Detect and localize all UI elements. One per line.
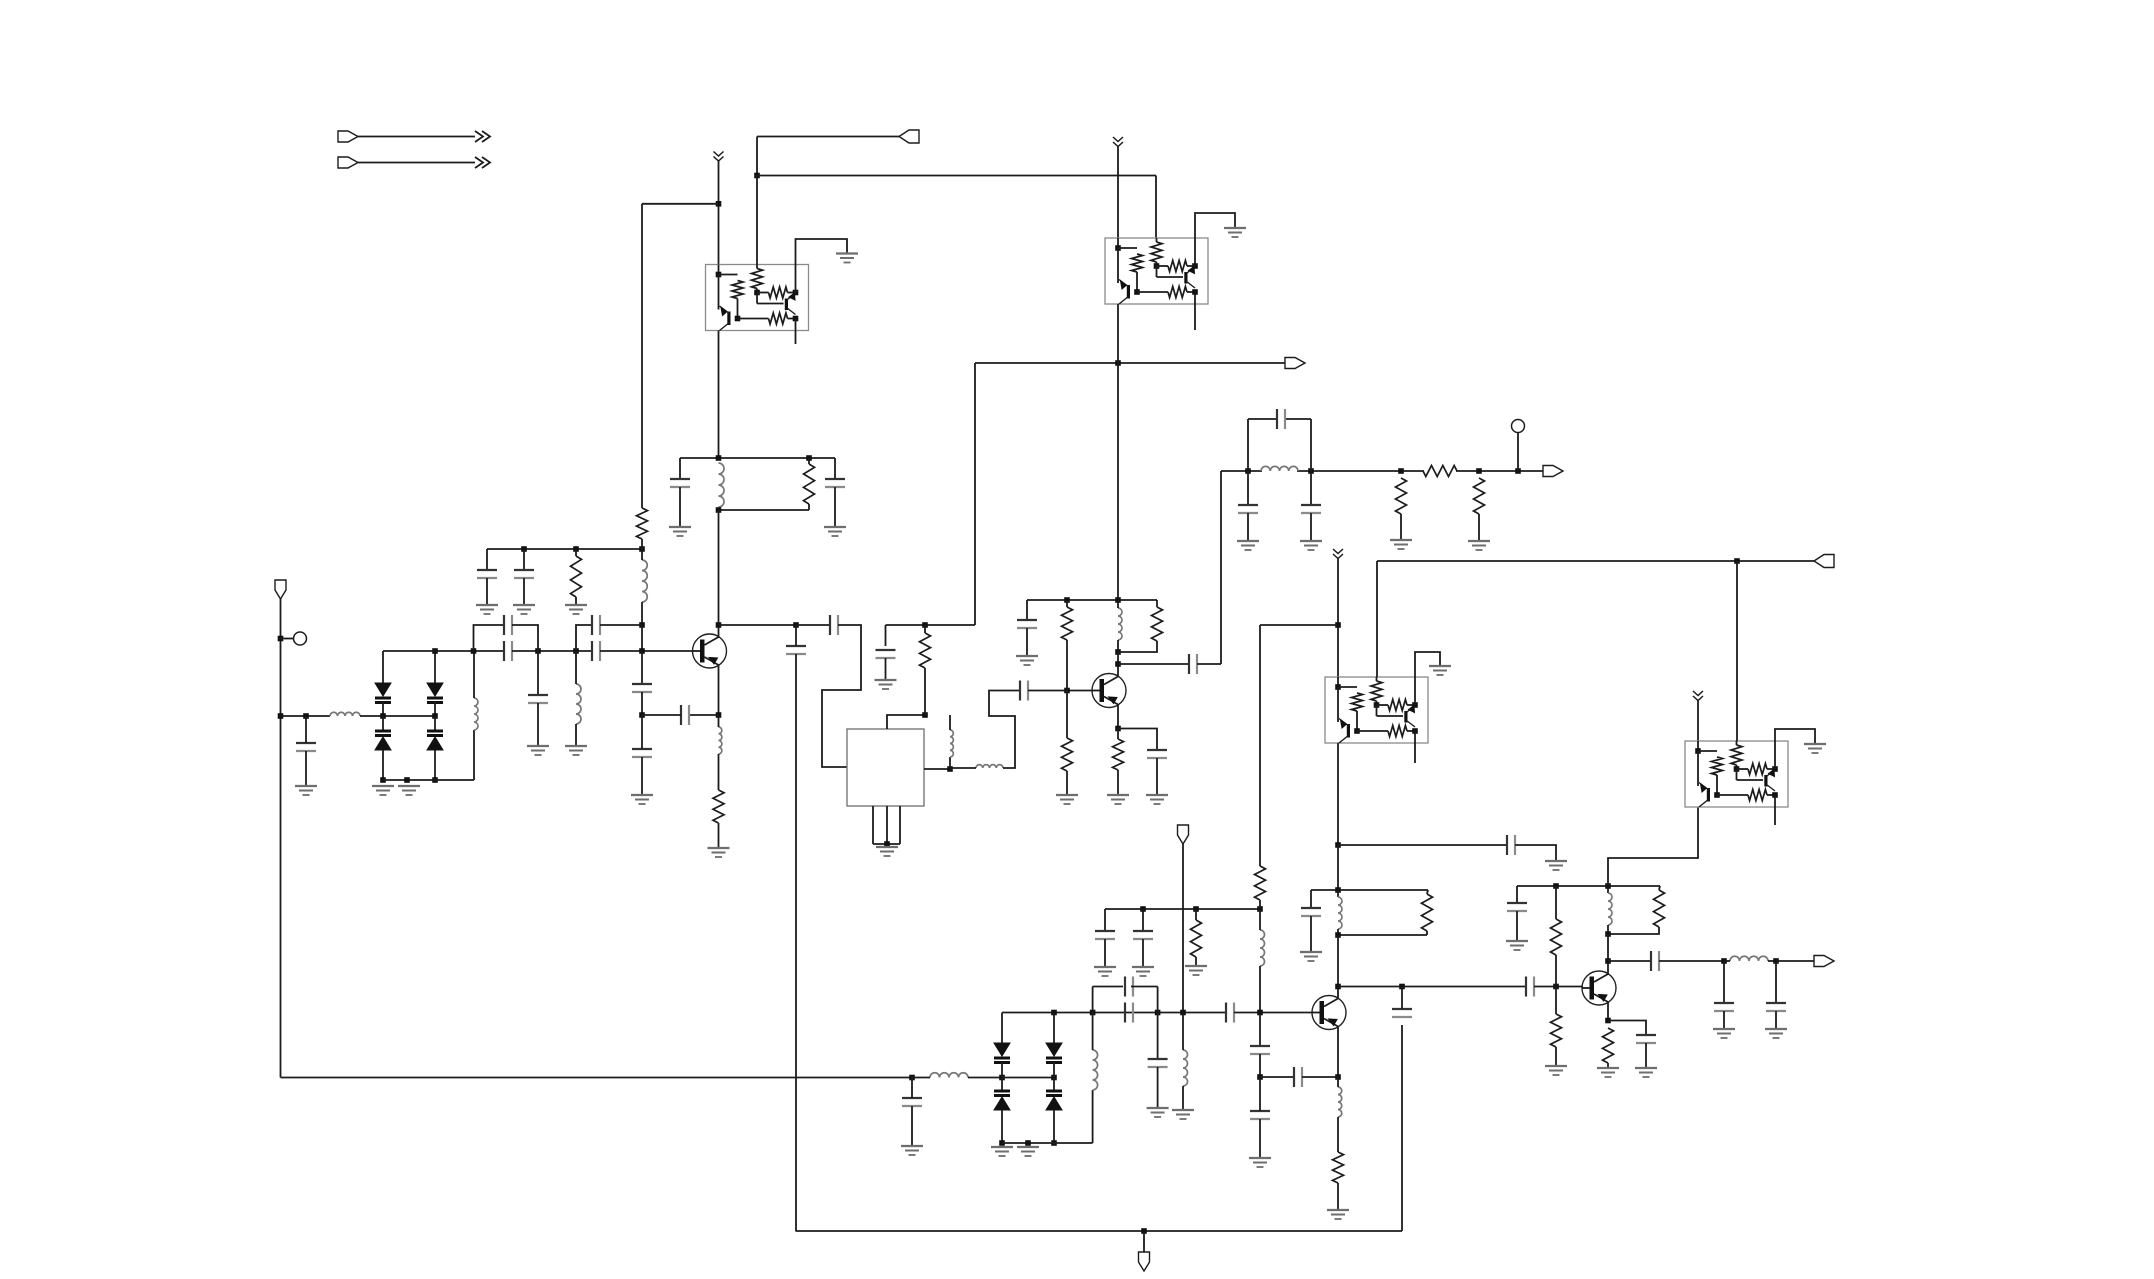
wire U1 center pin up bbox=[756, 176, 758, 265]
capacitor C-q2in bbox=[1020, 681, 1028, 701]
node junction (1402,986) bbox=[1399, 984, 1405, 990]
wire bbox=[473, 651, 475, 698]
node junction (1518,471) bbox=[1515, 468, 1521, 474]
wire bbox=[382, 702, 384, 716]
wire x642 long vertical bbox=[641, 204, 643, 508]
wire bbox=[968, 1077, 1002, 1079]
inductor L-tankB bbox=[1608, 893, 1612, 925]
wire q3 base line b bbox=[1234, 1012, 1312, 1014]
capacitor C-par-low bbox=[1125, 1003, 1133, 1023]
wire lead bbox=[1104, 939, 1106, 967]
ground tank1-left bbox=[669, 527, 691, 536]
node junction (1260,1012) bbox=[1257, 1010, 1263, 1016]
wire lead bbox=[1400, 514, 1402, 540]
wire q4 emitter bbox=[1607, 1002, 1609, 1021]
inductor L-shunt576 bbox=[576, 684, 581, 724]
wire y625 rail bbox=[886, 624, 976, 626]
capacitor C-saw-in bbox=[830, 615, 838, 635]
wire bbox=[1182, 1086, 1184, 1110]
capacitor C-q3fb bbox=[1294, 1067, 1302, 1087]
node junction (1248,471) bbox=[1245, 468, 1251, 474]
resistor R-q2e bbox=[1113, 739, 1124, 770]
transistor Q1 bbox=[693, 634, 727, 668]
wire bbox=[1555, 955, 1557, 987]
wire y651 b bbox=[512, 650, 592, 652]
wire lead bbox=[486, 578, 488, 605]
node junction (796,625) bbox=[793, 622, 799, 628]
wire bbox=[1607, 1063, 1609, 1068]
ground f1 bbox=[1237, 541, 1259, 550]
connector flag IF-OUT bbox=[1543, 466, 1563, 477]
ground U2 bbox=[1224, 228, 1246, 237]
wire lead bbox=[305, 716, 307, 743]
wire filter rail c bbox=[1456, 470, 1543, 472]
wire legend1 bbox=[358, 136, 475, 138]
wire saw zigzag bbox=[822, 625, 861, 767]
capacitor C-f1 bbox=[1238, 505, 1258, 513]
dual-transistor package U1 bbox=[706, 265, 809, 331]
wire bbox=[1197, 663, 1221, 665]
wire lead bbox=[1310, 890, 1312, 908]
wire x1402 riser bbox=[1401, 1025, 1403, 1231]
wire bbox=[1002, 1077, 1054, 1079]
wire lead bbox=[1259, 1077, 1261, 1111]
ground varC bbox=[991, 1147, 1013, 1156]
wire q3c to q4b bbox=[1338, 986, 1526, 988]
wire collector into Q4 bbox=[1607, 961, 1609, 975]
node junction (1002,1077) bbox=[999, 1075, 1005, 1081]
resistor R-q2b2 bbox=[1062, 738, 1073, 771]
node junction (407,780) bbox=[404, 777, 410, 783]
node junction (1118,652) bbox=[1115, 649, 1121, 655]
capacitor C-par-up bbox=[1125, 977, 1133, 997]
ground q2e-c bbox=[1146, 795, 1168, 804]
wire bbox=[1776, 960, 1814, 962]
wire bias rail y549 bbox=[487, 548, 642, 550]
node junction (718,625) bbox=[716, 622, 722, 628]
capacitor C-tanktop bbox=[1277, 409, 1285, 429]
wire lead bbox=[537, 703, 539, 746]
node junction (1337,890) bbox=[1335, 887, 1341, 893]
ground tank1-right bbox=[824, 527, 846, 536]
wire lead bbox=[1066, 600, 1068, 607]
wire legend2 bbox=[358, 162, 475, 164]
varactor diode D4 (up) bbox=[427, 731, 443, 750]
ground bias2 bbox=[513, 605, 535, 614]
wire bbox=[1401, 987, 1403, 1010]
capacitor C-q3in bbox=[1226, 1003, 1234, 1023]
wire bbox=[1066, 640, 1068, 691]
inductor L-saw side bbox=[950, 730, 953, 757]
ground tankA bbox=[1300, 952, 1322, 961]
node junction (280,716) bbox=[278, 713, 284, 719]
node junction (1776,961) bbox=[1773, 958, 1779, 964]
resistor R-e Q1 bbox=[713, 790, 724, 823]
wire U3 right stub bbox=[1414, 743, 1416, 763]
wire flag stem bbox=[1143, 1231, 1145, 1252]
inductor L-input bbox=[330, 712, 360, 716]
wire q2 rail y600 bbox=[1027, 599, 1157, 601]
wire U3 pin to tank bbox=[1337, 845, 1339, 890]
node junction (1143,909) bbox=[1140, 906, 1146, 912]
wire bbox=[1182, 1013, 1184, 1051]
wire bbox=[718, 715, 720, 727]
wire bbox=[1001, 1110, 1003, 1143]
capacitor C-q2e bbox=[1147, 750, 1167, 758]
wire upper branch2 bbox=[576, 625, 592, 651]
capacitor C-642a bbox=[632, 684, 652, 692]
varactor diode D8 (up) bbox=[1046, 1091, 1062, 1110]
inductor L-1183 bbox=[1183, 1050, 1188, 1086]
wire corner x757 bbox=[756, 137, 758, 176]
capacitor C-tankA bbox=[1301, 908, 1321, 916]
node junction (1608,886) bbox=[1605, 883, 1611, 889]
chevron down D bbox=[1693, 691, 1703, 701]
capacitor C-q4out bbox=[1651, 951, 1659, 971]
test point circle 2 bbox=[1512, 420, 1525, 433]
wire to Q2 base bbox=[1028, 690, 1092, 692]
wire U4 right stub bbox=[1774, 807, 1776, 825]
wire tank riser l bbox=[1247, 419, 1249, 471]
wire bbox=[1259, 966, 1261, 1013]
capacitor C-q2out bbox=[1189, 654, 1197, 674]
capacitor C-1402 bbox=[1392, 1009, 1412, 1017]
wire bbox=[1156, 758, 1158, 795]
wire bbox=[434, 750, 436, 780]
transistor Q3 bbox=[1312, 996, 1346, 1030]
resistor R-q2b1 bbox=[1062, 607, 1073, 640]
ground q2e bbox=[1107, 795, 1129, 804]
resistor R-tankB bbox=[1654, 890, 1665, 927]
ground shunt538 bbox=[527, 746, 549, 755]
wire lead bbox=[808, 458, 810, 464]
connector flag VCC2 bbox=[1814, 555, 1834, 568]
connector flag RF-IN bbox=[275, 580, 286, 599]
node junction (912,1077) bbox=[909, 1075, 915, 1081]
inductor L-q2c bbox=[1118, 608, 1122, 640]
wire bbox=[1117, 640, 1119, 652]
resistor R-909 bbox=[1191, 920, 1202, 957]
resistor R-q4b lower bbox=[1551, 1014, 1562, 1047]
wire U4 right pin bend bbox=[1775, 729, 1815, 744]
capacitor C-q2rail bbox=[1017, 620, 1037, 628]
wire lead bbox=[1516, 911, 1518, 941]
node junction (576,549) bbox=[573, 546, 579, 552]
node junction (1067,600) bbox=[1064, 597, 1070, 603]
wire cap-gnd lead r bbox=[834, 487, 836, 527]
node junction (1002,1143) bbox=[999, 1140, 1005, 1146]
wire bbox=[718, 823, 720, 848]
capacitor C-845 bbox=[1507, 835, 1515, 855]
capacitor C-909a bbox=[1095, 931, 1115, 939]
ground U1 bbox=[836, 254, 858, 263]
wire collector tap bbox=[719, 624, 797, 626]
node junction (538,651) bbox=[535, 648, 541, 654]
wire lead bbox=[911, 1106, 913, 1146]
wire input rail y716 bbox=[281, 715, 331, 717]
wire lead bbox=[305, 751, 307, 786]
capacitor C-1260a bbox=[1250, 1046, 1270, 1054]
wire x1221 riser bbox=[1220, 471, 1222, 664]
wire lead bbox=[641, 625, 643, 651]
wire bbox=[1555, 987, 1557, 1015]
inductor L-tank1 bbox=[719, 463, 725, 507]
net chevron down B bbox=[1113, 137, 1123, 147]
legend connector flag IN1 bbox=[338, 131, 358, 142]
wire lead bbox=[641, 602, 643, 625]
wire x975 riser bbox=[974, 363, 976, 625]
wire lead bbox=[1310, 916, 1312, 952]
wire saw out route bbox=[989, 691, 1020, 769]
wire lead bbox=[1516, 886, 1518, 903]
node junction (306,716) bbox=[303, 713, 309, 719]
node junction (1337,935) bbox=[1335, 932, 1341, 938]
ground q4e bbox=[1597, 1068, 1619, 1077]
wire bbox=[1337, 1077, 1339, 1087]
wire bbox=[1117, 600, 1119, 608]
wire bbox=[1118, 641, 1157, 652]
wire lead bbox=[1247, 513, 1249, 541]
node junction (473,651) bbox=[471, 648, 477, 654]
node junction (925,625) bbox=[922, 622, 928, 628]
node junction (1260,909) bbox=[1257, 906, 1263, 912]
wire cap lead bbox=[486, 549, 488, 570]
wire lead bbox=[523, 578, 525, 605]
wire y204 bbox=[642, 203, 719, 205]
wire to test point bbox=[281, 638, 294, 640]
node junction (435,651) bbox=[432, 648, 438, 654]
connector flag OSC-out bbox=[1285, 358, 1305, 369]
node junction (809,458) bbox=[806, 455, 812, 461]
connector flag AGC bbox=[1178, 825, 1189, 844]
legend double-chevron 2 bbox=[475, 157, 490, 168]
net chevron down C bbox=[1333, 549, 1343, 559]
resistor R-q4b upper bbox=[1551, 919, 1562, 955]
node junction (1608,1020) bbox=[1605, 1018, 1611, 1024]
wire q4 out a bbox=[1608, 960, 1651, 962]
wire tank top r bbox=[1285, 418, 1311, 420]
connector flag RF-OUT bbox=[1814, 956, 1834, 967]
wire chevron1 stem bbox=[718, 161, 720, 265]
wire lead bbox=[1259, 1119, 1261, 1158]
node junction (1118,363) bbox=[1115, 360, 1121, 366]
wire bbox=[1259, 909, 1261, 930]
wire bbox=[1156, 600, 1158, 607]
wire lead bbox=[641, 692, 643, 715]
ground f3 bbox=[1390, 540, 1412, 549]
wire chevron2 stem bbox=[1117, 147, 1119, 239]
wire tank1 top rail bbox=[680, 457, 835, 459]
wire bbox=[1092, 1013, 1094, 1051]
wire lead bbox=[1310, 471, 1312, 505]
resistor R-f3 bbox=[1474, 478, 1485, 514]
wire bbox=[1001, 1062, 1003, 1078]
wire varB top lead bbox=[434, 651, 436, 683]
ground f4 bbox=[1468, 541, 1490, 550]
connector flag VCC-top bbox=[899, 130, 919, 143]
wire upper branch1 b bbox=[512, 625, 538, 651]
wire e-cap link bbox=[1260, 1076, 1294, 1078]
wire filter rail b bbox=[1297, 470, 1424, 472]
wire emitter cap link bbox=[689, 714, 719, 716]
ground 845 bbox=[1545, 861, 1567, 870]
wire lead bbox=[575, 597, 577, 605]
varactor diode D6 (up) bbox=[994, 1091, 1010, 1110]
wire lead bbox=[795, 625, 797, 646]
wire bbox=[912, 1077, 930, 1079]
ground out1 bbox=[1713, 1029, 1735, 1038]
wire bbox=[1118, 729, 1157, 751]
capacitor C-bias1 bbox=[477, 570, 497, 578]
net chevron down A bbox=[714, 152, 724, 162]
wire U1 right stub bbox=[795, 331, 797, 345]
wire riser x474 bbox=[473, 730, 475, 780]
wire bbox=[1337, 1183, 1339, 1210]
wire q4 out b bbox=[1659, 960, 1724, 962]
wire Q3 collector bbox=[1337, 935, 1339, 999]
wire lead bbox=[575, 549, 577, 556]
node junction (718,204) bbox=[716, 201, 722, 207]
wire to cap bbox=[796, 624, 830, 626]
wire lead bbox=[641, 549, 643, 560]
wire bbox=[1659, 886, 1660, 890]
wire bbox=[924, 625, 926, 633]
wire lead bbox=[641, 715, 643, 749]
varactor diode D1 (down) bbox=[375, 683, 391, 703]
wire y363 line bbox=[975, 362, 1285, 364]
wire q2 emitter bbox=[1117, 704, 1119, 729]
varactor diode D3 (down) bbox=[427, 683, 443, 703]
wire tankB top rail bbox=[1517, 885, 1660, 887]
ground varD bbox=[1017, 1147, 1039, 1156]
node junction (1054,1012) bbox=[1051, 1010, 1057, 1016]
transistor Q4 bbox=[1582, 971, 1616, 1005]
node junction (642,625) bbox=[639, 622, 645, 628]
wire bbox=[949, 757, 951, 769]
wire bottom tie bbox=[383, 779, 474, 781]
ground saw bbox=[876, 847, 898, 856]
wire lead bbox=[1157, 1013, 1159, 1060]
varactor diode D7 (down) bbox=[1046, 1043, 1062, 1063]
node junction (718,458) bbox=[716, 455, 722, 461]
resistor R-q4e bbox=[1603, 1028, 1614, 1063]
wire flag stem x1183 bbox=[1182, 844, 1184, 1013]
wire riser 1092 bbox=[1092, 1090, 1094, 1143]
node junction (280,638) bbox=[278, 636, 284, 642]
inductor L-out bbox=[1730, 956, 1768, 961]
wire lead bbox=[537, 651, 539, 695]
node junction (1737,561) bbox=[1734, 558, 1740, 564]
wire rail y909 bbox=[1105, 908, 1260, 910]
wire rail y716 b bbox=[360, 715, 435, 717]
node junction (1338,625) bbox=[1335, 622, 1341, 628]
capacitor C-out1 bbox=[1714, 1003, 1734, 1011]
inductor L-var bbox=[474, 698, 478, 730]
wire x796 long vertical bbox=[795, 654, 797, 1231]
wire U2 left pin down bbox=[1117, 304, 1119, 600]
wire lead bbox=[1157, 1067, 1159, 1108]
inductor L-feed x642 bbox=[642, 560, 647, 602]
node junction (757,175) bbox=[754, 173, 760, 179]
wire par top a bbox=[1093, 986, 1123, 988]
dual-transistor package U3 bbox=[1325, 677, 1428, 743]
node junction (1054,1077) bbox=[1051, 1075, 1057, 1081]
wire filter rail a bbox=[1221, 470, 1262, 472]
wire upper branch2 b bbox=[600, 624, 642, 626]
capacitor C-885 bbox=[876, 650, 896, 658]
ground 1260 bbox=[1249, 1158, 1271, 1167]
wire lead bbox=[575, 724, 577, 746]
wire saw stub1 bbox=[872, 806, 874, 844]
wire cap-gnd lead bbox=[679, 487, 681, 527]
capacitor C-q4in bbox=[1526, 977, 1534, 997]
inductor L-filter bbox=[1261, 466, 1298, 471]
capacitor tank1 left bbox=[670, 479, 690, 487]
wire bbox=[1768, 960, 1776, 962]
wire bbox=[382, 750, 384, 780]
wire bbox=[1427, 890, 1428, 894]
wire q2 out bbox=[1118, 663, 1189, 665]
wire saw stub2 bbox=[886, 806, 888, 844]
node junction (1118,664) bbox=[1115, 661, 1121, 667]
wire cap lead bbox=[679, 458, 681, 479]
wire bbox=[1117, 652, 1119, 677]
node junction (1196,909) bbox=[1193, 906, 1199, 912]
connector flag VT bbox=[1139, 1252, 1150, 1271]
node junction (642,715) bbox=[639, 712, 645, 718]
wire lead bbox=[1337, 890, 1339, 897]
varactor diode D5 (down) bbox=[994, 1043, 1010, 1063]
wire saw right pin bbox=[924, 768, 950, 770]
wire lead bbox=[1026, 628, 1028, 656]
node junction (383,716) bbox=[380, 713, 386, 719]
ground q2b bbox=[1056, 795, 1078, 804]
wire lead bbox=[1142, 939, 1144, 967]
node junction (435,716) bbox=[432, 713, 438, 719]
wire varC top bbox=[1001, 1013, 1003, 1044]
capacitor C-out2 bbox=[1766, 1003, 1786, 1011]
capacitor tank1 right bbox=[825, 479, 845, 487]
test point circle bbox=[294, 632, 307, 645]
ground U3 bbox=[1429, 666, 1451, 675]
capacitor C-642b bbox=[632, 749, 652, 757]
capacitor C-couple2 bbox=[592, 641, 600, 661]
wire U3 left pin down bbox=[1337, 743, 1339, 845]
ground 1183 bbox=[1172, 1110, 1194, 1119]
wire y651 a bbox=[383, 650, 504, 652]
wire U4 center pin up bbox=[1736, 561, 1738, 741]
resistor R-f2 series bbox=[1423, 466, 1457, 477]
dual-transistor package U2 bbox=[1105, 238, 1208, 304]
wire bbox=[1724, 960, 1730, 962]
wire upper branch1 bbox=[474, 625, 505, 651]
ground 909a bbox=[1094, 967, 1116, 976]
node junction (1337,1077) bbox=[1335, 1074, 1341, 1080]
ground varB bbox=[398, 786, 420, 795]
capacitor C-q4e bbox=[1636, 1035, 1656, 1043]
wire chevron4 stem bbox=[1697, 701, 1699, 742]
ground 1157 bbox=[1147, 1108, 1169, 1117]
inductor L-1260 bbox=[1260, 930, 1265, 966]
wire bbox=[642, 714, 681, 716]
ground shunt576 bbox=[565, 746, 587, 755]
node junction (1608,934) bbox=[1605, 931, 1611, 937]
ground q4b bbox=[1545, 1066, 1567, 1075]
ground 885 bbox=[875, 680, 897, 689]
wire U2 right pin bend bbox=[1195, 213, 1235, 238]
wire q4 feed bbox=[1608, 807, 1698, 886]
resistor R-tankA bbox=[1422, 894, 1433, 931]
